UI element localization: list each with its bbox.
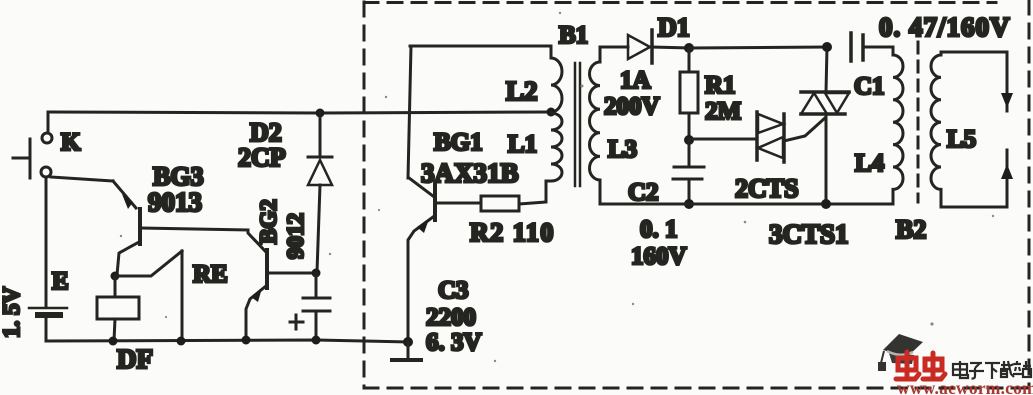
label L4: [855, 150, 885, 177]
wire top rail: [48, 112, 551, 113]
wire diac to triac gate: [784, 118, 825, 141]
switch K: [13, 133, 52, 178]
wire oscillator loop left: [408, 46, 411, 178]
label DF: [117, 344, 153, 374]
label D2: [250, 118, 282, 147]
label 2M: [705, 98, 741, 125]
label R1: [705, 72, 736, 99]
label R2 110: [470, 218, 555, 247]
svg-text:3AX31B: 3AX31B: [421, 158, 519, 188]
label K: [61, 129, 81, 156]
svg-text:1A: 1A: [620, 67, 651, 94]
svg-text:2CP: 2CP: [238, 143, 286, 172]
diac 2CTS: [757, 112, 784, 162]
wire oscillator loop top: [410, 45, 551, 48]
wire L3 top to D1: [600, 46, 628, 49]
label 3CTS1: [769, 219, 849, 249]
node L1 L2 tap: [547, 108, 556, 117]
svg-text:6. 3V: 6. 3V: [426, 329, 482, 356]
capacitor C3 electrolytic: [290, 273, 330, 339]
wire D1 to triac anode: [689, 47, 827, 48]
svg-text:1. 5V: 1. 5V: [0, 287, 24, 339]
transformer B1 winding L3: [590, 48, 601, 204]
wire BG3 base to BG2: [141, 228, 248, 230]
node D2 top: [316, 109, 325, 118]
scan speckles: [120, 12, 994, 362]
svg-text:L3: L3: [608, 136, 637, 163]
node relay junction: [111, 272, 120, 281]
svg-text:200V: 200V: [604, 93, 660, 120]
output electrode top arrow: [1001, 52, 1013, 111]
output electrode bottom arrow: [1001, 150, 1013, 207]
logo url text: [897, 378, 1033, 395]
svg-text:R2 110: R2 110: [470, 218, 555, 247]
label C2: [628, 179, 659, 206]
label 1.5V: [0, 287, 24, 339]
wire battery to bottom rail: [45, 317, 48, 341]
dashed box: [364, 0, 1030, 388]
label L1: [508, 131, 537, 158]
wire L5 top to output: [941, 51, 1007, 54]
svg-text:160V: 160V: [631, 243, 687, 270]
relay RE coil: [97, 276, 139, 341]
capacitor C2: [673, 140, 704, 203]
transistor BG2: [246, 230, 316, 340]
svg-text:B2: B2: [896, 215, 926, 244]
label 160V: [631, 243, 687, 270]
svg-text:0. 47/160V: 0. 47/160V: [879, 12, 1011, 42]
node C3 bottom: [312, 336, 321, 345]
svg-text:D1: D1: [658, 13, 690, 42]
svg-text:9013: 9013: [148, 187, 202, 217]
label 1A: [620, 67, 651, 94]
svg-text:2CTS: 2CTS: [735, 174, 799, 203]
label BG2: [256, 199, 281, 244]
svg-text:0. 1: 0. 1: [640, 216, 678, 243]
label 3AX31B: [421, 158, 519, 188]
capacitor C1: [851, 33, 893, 61]
transformer B1 winding L1: [551, 113, 562, 181]
svg-text:R1: R1: [705, 72, 736, 99]
ground: [392, 342, 421, 360]
label 6.3V: [426, 329, 482, 356]
wire switch to BG3 emitter: [51, 177, 113, 181]
node BG2 emitter bottom: [242, 336, 251, 345]
logo site name text: [953, 361, 1031, 379]
node triac bottom: [821, 199, 831, 209]
label L2: [506, 76, 538, 106]
label 0.47/160V: [879, 12, 1011, 42]
svg-text:E: E: [52, 268, 69, 295]
wire bottom rail: [46, 340, 408, 342]
node C2 bottom: [684, 199, 694, 209]
resistor R2: [481, 181, 551, 211]
transformer B1 winding L2: [551, 46, 562, 112]
node BG2 collector: [312, 269, 321, 278]
label RE: [193, 261, 228, 288]
svg-text:RE: RE: [193, 261, 228, 288]
label 2CP: [238, 143, 286, 172]
label 2200: [426, 304, 476, 331]
svg-text:DF: DF: [117, 344, 153, 374]
logo chongchong characters: [896, 352, 945, 379]
wire bottom rail secondary: [600, 203, 893, 206]
node D1 cathode: [684, 43, 694, 53]
svg-text:C2: C2: [628, 179, 659, 206]
triac 3CTS1: [801, 47, 849, 204]
node R1 bottom: [684, 135, 694, 145]
wire L5 bottom: [941, 206, 1007, 209]
node arm bottom: [177, 337, 186, 346]
svg-text:2M: 2M: [705, 98, 741, 125]
transistor BG3: [113, 181, 140, 275]
transformer B2 winding L4: [893, 47, 903, 204]
label 0.1: [640, 216, 678, 243]
svg-text:C1: C1: [854, 73, 885, 100]
svg-text:L5: L5: [947, 126, 976, 153]
label BG3: [153, 162, 204, 191]
label 2CTS: [735, 174, 799, 203]
label C1: [854, 73, 885, 100]
label 9012: [283, 213, 308, 259]
svg-text:L4: L4: [855, 150, 885, 177]
label L5: [947, 126, 976, 153]
svg-text:K: K: [61, 129, 81, 156]
transformer B2 winding L5: [931, 52, 941, 207]
svg-text:BG2: BG2: [256, 199, 281, 244]
svg-text:L2: L2: [506, 76, 538, 106]
relay RE contact arm: [115, 251, 182, 341]
diode D1: [628, 30, 689, 63]
label C3: [438, 277, 469, 304]
label E: [52, 268, 69, 295]
node relay bottom: [109, 337, 118, 346]
transformer B1 core: [575, 63, 580, 186]
transistor BG1: [408, 178, 481, 342]
svg-text:3CTS1: 3CTS1: [769, 219, 849, 249]
svg-text:L1: L1: [508, 131, 537, 158]
svg-text:C3: C3: [438, 277, 469, 304]
svg-text:B1: B1: [559, 22, 588, 49]
wire R1 to diac: [689, 138, 757, 141]
resistor R1: [680, 48, 698, 139]
diode D2: [308, 113, 332, 272]
logo graduation cap: [878, 334, 923, 371]
svg-text:9012: 9012: [283, 213, 308, 259]
battery E: [29, 308, 67, 315]
label BG1: [434, 129, 483, 156]
svg-text:www.aeworm.com: www.aeworm.com: [897, 378, 1033, 395]
label 200V: [604, 93, 660, 120]
label L3: [608, 136, 637, 163]
label 9013: [148, 187, 202, 217]
svg-text:BG1: BG1: [434, 129, 483, 156]
label D1: [658, 13, 690, 42]
label B2: [896, 215, 926, 244]
svg-text:2200: 2200: [426, 304, 476, 331]
label B1: [559, 22, 588, 49]
node emitter ground junction: [403, 337, 413, 347]
node triac top: [822, 42, 832, 52]
wire switch down to battery: [45, 177, 48, 306]
transformer B2 core: [917, 42, 920, 202]
wire top-left corner down to switch: [47, 112, 50, 133]
